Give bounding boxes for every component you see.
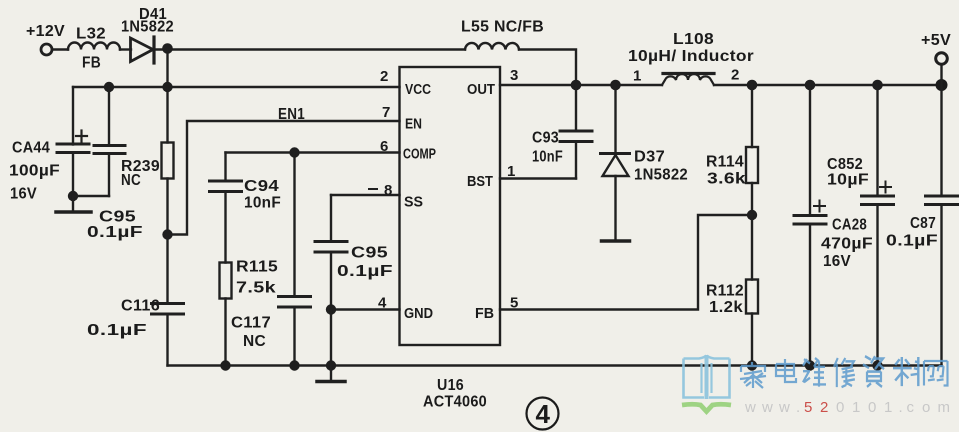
- char liao: [893, 357, 919, 386]
- node junction C852 top: [872, 80, 883, 91]
- svg-text:1: 1: [633, 68, 641, 85]
- wire FB net: [500, 215, 752, 310]
- svg-text:16V: 16V: [10, 186, 37, 203]
- node junction D41 cathode: [162, 43, 173, 54]
- wire L32 to D41: [120, 48, 131, 50]
- svg-text:7: 7: [382, 104, 390, 121]
- wire L55 to bootstrap corner: [519, 50, 576, 86]
- svg-text:1N5822: 1N5822: [121, 19, 174, 36]
- svg-text:EN: EN: [405, 117, 422, 133]
- svg-text:C116: C116: [121, 298, 160, 315]
- svg-text:10nF: 10nF: [244, 195, 281, 212]
- svg-text:FB: FB: [82, 55, 101, 72]
- svg-text:NC: NC: [243, 333, 266, 350]
- node junction D37: [610, 80, 621, 91]
- capacitor C95b: [315, 195, 347, 310]
- wire SS line: [331, 194, 400, 196]
- svg-text:FB: FB: [475, 306, 494, 322]
- wire EN1 net: [168, 121, 400, 235]
- ground bus bottom: [168, 364, 942, 366]
- svg-text:470µF: 470µF: [821, 236, 873, 253]
- svg-text:7.5k: 7.5k: [236, 280, 276, 297]
- node junction R114 top: [747, 80, 758, 91]
- wire CA44 bottom lead: [72, 153, 74, 197]
- node junction OUT/C93/L55: [571, 80, 582, 91]
- watermark url www.520101.com: [744, 399, 950, 416]
- wire VCC bus: [73, 86, 400, 88]
- svg-text:1N5822: 1N5822: [634, 167, 688, 184]
- node junction EN1/R239/C116: [162, 229, 172, 239]
- svg-text:+5V: +5V: [921, 32, 951, 49]
- svg-text:www.: www.: [744, 399, 800, 416]
- svg-text:D37: D37: [634, 149, 665, 166]
- char jia: [740, 362, 766, 388]
- capacitor C116: [152, 235, 184, 366]
- circled figure number 4: [527, 398, 559, 430]
- svg-text:L32: L32: [76, 26, 106, 43]
- svg-text:1: 1: [507, 163, 515, 180]
- capacitor C87: [926, 85, 958, 366]
- capacitor CA28: [794, 85, 826, 366]
- node junction COMP/C117: [289, 147, 299, 157]
- svg-text:0.1µF: 0.1µF: [87, 322, 147, 339]
- wire VCC bus down to CA44: [72, 87, 74, 145]
- svg-text:10nF: 10nF: [532, 149, 563, 166]
- node junction R112 bottom: [747, 360, 757, 370]
- watermark chinese characters: [740, 356, 948, 388]
- node junction C95b bottom: [326, 360, 336, 370]
- svg-text:0.1µF: 0.1µF: [337, 263, 393, 280]
- resistor R115: [220, 263, 232, 366]
- svg-text:BST: BST: [467, 174, 493, 190]
- svg-text:R114: R114: [706, 154, 744, 171]
- svg-text:C95: C95: [351, 245, 388, 262]
- char zi: [863, 356, 884, 387]
- char xiu: [834, 358, 855, 387]
- svg-text:COMP: COMP: [403, 147, 436, 163]
- svg-text:4: 4: [378, 295, 387, 312]
- svg-text:VCC: VCC: [405, 82, 431, 98]
- svg-text:C117: C117: [231, 315, 271, 332]
- svg-text:R112: R112: [706, 283, 744, 300]
- svg-text:NC: NC: [121, 172, 141, 189]
- node junction R115 bottom: [220, 360, 230, 370]
- node junction CA28 bottom: [805, 360, 815, 370]
- node junction CA28 top: [805, 80, 816, 91]
- svg-text:C852: C852: [827, 156, 863, 173]
- svg-text:0.1µF: 0.1µF: [886, 233, 938, 250]
- svg-text:CA28: CA28: [832, 217, 867, 234]
- svg-text:8: 8: [384, 182, 392, 199]
- capacitor C94: [210, 153, 242, 263]
- capacitor C95a: [94, 87, 125, 196]
- node junction C87 top: [936, 79, 948, 91]
- diode D37 1N5822: [601, 85, 630, 240]
- inductor L108: [662, 74, 714, 86]
- resistor R239: [162, 87, 174, 235]
- node junction GND/C95b: [326, 304, 336, 314]
- svg-text:6: 6: [380, 138, 388, 155]
- node junction R239 top on VCC bus: [162, 82, 172, 92]
- svg-text:L55 NC/FB: L55 NC/FB: [461, 19, 544, 36]
- svg-text:3: 3: [510, 67, 518, 84]
- node junction CA44/C95a bottoms: [68, 191, 78, 201]
- inductor L55: [465, 43, 519, 50]
- capacitor C93: [560, 85, 592, 179]
- svg-text:2: 2: [731, 67, 739, 84]
- wire OUT pin line: [500, 84, 576, 86]
- svg-text:ACT4060: ACT4060: [423, 394, 487, 411]
- svg-text:GND: GND: [404, 306, 433, 322]
- wire OUT node to L108: [576, 84, 662, 86]
- diode D41 1N5822: [131, 37, 155, 63]
- svg-text:U16: U16: [437, 377, 464, 394]
- svg-text:1.2k: 1.2k: [709, 299, 743, 316]
- svg-text:3.6k: 3.6k: [707, 171, 746, 188]
- wire BST pin line: [500, 177, 576, 179]
- pin 8 dash: [369, 188, 377, 190]
- capacitor CA44: [57, 131, 89, 153]
- op-amp U16 ACT4060 IC box: [400, 67, 501, 345]
- wire L108 to +5V: [714, 84, 942, 86]
- ground below D37: [602, 239, 630, 243]
- svg-text:R115: R115: [236, 259, 278, 276]
- char wang: [924, 361, 948, 385]
- wire C95b to ground bus: [330, 310, 332, 366]
- svg-text:C93: C93: [532, 130, 559, 147]
- svg-text:OUT: OUT: [467, 82, 495, 98]
- wire D41 junction down to VCC bus: [166, 50, 168, 88]
- svg-text:10µF: 10µF: [827, 172, 869, 189]
- svg-text:4: 4: [536, 399, 551, 429]
- svg-text:52: 52: [804, 399, 828, 416]
- wire COMP line: [226, 151, 400, 153]
- node junction C852 bottom: [872, 360, 882, 370]
- wire link CA44 to C95a bottom: [73, 195, 109, 197]
- node junction C117 bottom: [289, 360, 299, 370]
- svg-text:C95: C95: [99, 209, 136, 226]
- ground below CA44: [56, 196, 91, 212]
- svg-text:C87: C87: [910, 215, 936, 232]
- node +12V input terminal: [41, 44, 52, 55]
- watermark green underline: [682, 404, 731, 411]
- svg-text:L108: L108: [673, 31, 714, 48]
- svg-text:CA44: CA44: [12, 140, 50, 157]
- watermark book icon: [684, 355, 730, 399]
- svg-text:5: 5: [510, 295, 518, 312]
- char dian: [776, 359, 796, 382]
- node junction R114/R112/FB: [747, 210, 757, 220]
- node junction C95a on VCC bus: [104, 82, 114, 92]
- svg-text:+12V: +12V: [26, 23, 65, 40]
- wire terminal to L32: [52, 48, 68, 50]
- capacitor C117: [279, 153, 311, 366]
- resistor R112: [746, 215, 758, 366]
- inductor L32: [68, 43, 120, 50]
- node +5V output terminal: [936, 53, 948, 85]
- svg-text:SS: SS: [404, 195, 423, 211]
- svg-text:10µH/ Inductor: 10µH/ Inductor: [628, 48, 754, 65]
- svg-text:EN1: EN1: [278, 106, 305, 123]
- svg-text:C94: C94: [244, 178, 279, 195]
- resistor R114: [746, 85, 758, 215]
- svg-text:2: 2: [380, 68, 388, 85]
- char wei: [803, 358, 826, 387]
- ground symbol below bus: [317, 366, 345, 382]
- svg-text:0101.com: 0101.com: [836, 399, 950, 416]
- wire GND pin line: [331, 308, 400, 310]
- svg-text:0.1µF: 0.1µF: [87, 224, 143, 241]
- svg-text:100µF: 100µF: [9, 163, 60, 180]
- svg-text:16V: 16V: [823, 253, 851, 270]
- wire D41 cathode to L55: [154, 48, 465, 50]
- capacitor C852: [862, 85, 894, 366]
